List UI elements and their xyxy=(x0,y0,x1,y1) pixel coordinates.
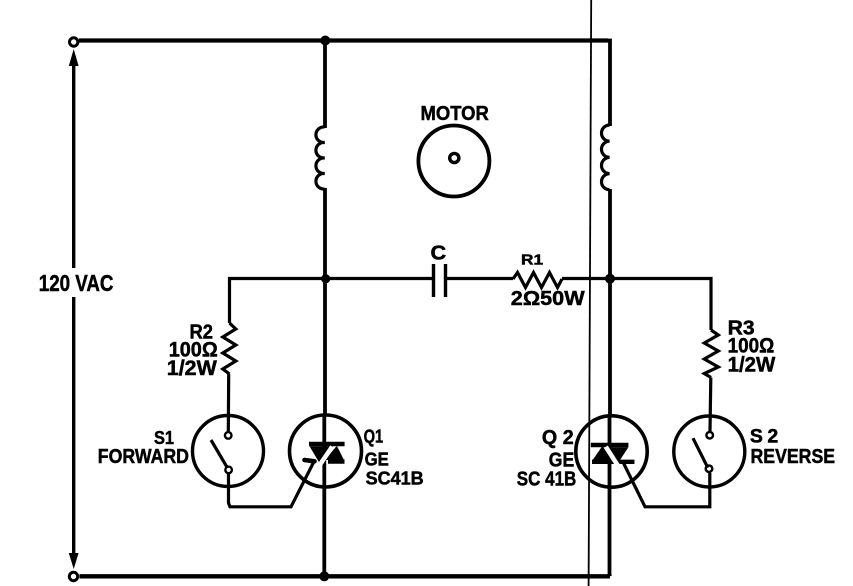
S2 top contact xyxy=(706,432,713,439)
svg-text:REVERSE: REVERSE xyxy=(751,446,836,468)
wire: right branch middle xyxy=(608,189,612,416)
wire: S1 to Q1 gate xyxy=(229,462,315,507)
wire: bottom bus xyxy=(80,574,611,578)
Q2 cathode bar xyxy=(592,460,635,464)
motor M xyxy=(418,126,489,197)
thyristor Q1 circle xyxy=(290,415,362,487)
Q2 triangle left (up) xyxy=(593,446,614,460)
junction: row / left branch xyxy=(321,274,330,283)
resistor R3 xyxy=(704,330,718,378)
capacitor C plate right xyxy=(444,264,447,297)
svg-text:C: C xyxy=(431,242,447,264)
Q1 cathode bar xyxy=(328,459,345,463)
S1 top contact xyxy=(225,432,232,439)
motor inner hub xyxy=(450,153,459,162)
S1 bottom contact xyxy=(225,467,232,474)
junction: top bus / left branch xyxy=(320,36,330,46)
svg-text:120 VAC: 120 VAC xyxy=(39,271,114,296)
svg-text:SC41B: SC41B xyxy=(366,468,424,488)
svg-text:1/2W: 1/2W xyxy=(728,353,776,376)
wire: source vertical lower xyxy=(72,297,75,556)
wire: top bus xyxy=(79,38,608,42)
svg-text:1/2W: 1/2W xyxy=(167,357,217,380)
svg-text:2Ω50W: 2Ω50W xyxy=(511,287,585,309)
wire: row right segment xyxy=(562,279,711,331)
wire: R3 to S2 xyxy=(708,378,712,432)
S2 bottom contact xyxy=(706,465,713,472)
svg-text:GE: GE xyxy=(365,449,389,470)
svg-text:Q1: Q1 xyxy=(364,426,384,447)
wire: left branch upper xyxy=(323,41,327,129)
junction: row / right branch xyxy=(605,274,615,284)
Q2 gate slash gap xyxy=(606,447,619,467)
Q1 gate slash gap xyxy=(318,447,332,468)
svg-text:S2: S2 xyxy=(750,425,783,447)
svg-text:SC 41B: SC 41B xyxy=(517,467,576,490)
wire: left branch middle xyxy=(323,188,327,416)
wire: left branch through Q1 to bottom xyxy=(322,416,326,576)
svg-text:FORWARD: FORWARD xyxy=(98,445,189,467)
wire: Q2 gate to S2 xyxy=(624,463,710,507)
svg-text:MOTOR: MOTOR xyxy=(421,102,489,125)
wire: row middle segment xyxy=(447,277,513,280)
terminal: 120 VAC bottom xyxy=(69,572,77,580)
wire: right branch through Q2 to bottom xyxy=(608,416,612,576)
Q1 triangle right (up) xyxy=(325,446,344,460)
svg-text:R1: R1 xyxy=(521,251,543,268)
Q1 gate stub xyxy=(305,460,315,461)
wire: right branch upper (corner from top bus) xyxy=(608,41,610,127)
terminal: 120 VAC top xyxy=(70,38,78,46)
resistor R2 xyxy=(223,323,236,374)
switch S2 circle xyxy=(674,416,745,487)
switch S1 circle xyxy=(193,416,264,487)
Q1 anode bar xyxy=(309,442,345,447)
wire: source vertical upper xyxy=(72,60,75,268)
vertical fold line xyxy=(589,0,592,586)
thyristor Q2 circle xyxy=(576,416,647,487)
junction: bottom bus / left branch xyxy=(319,571,329,581)
svg-text:Q 2: Q 2 xyxy=(542,427,574,449)
S2 arm xyxy=(693,438,708,468)
S1 arm xyxy=(211,440,227,467)
arrow up (source) xyxy=(69,49,79,66)
Q2 anode bar xyxy=(591,443,629,448)
arrow down (source) xyxy=(69,553,79,569)
inductor: right motor winding xyxy=(601,125,609,190)
Q1 triangle left (down) xyxy=(310,446,334,463)
resistor R1 xyxy=(513,273,562,288)
Q2 triangle right (down) xyxy=(606,447,628,463)
capacitor C plate left xyxy=(432,264,435,297)
wire: R2 to S1 xyxy=(227,374,231,432)
wire: row left segment xyxy=(230,279,433,324)
inductor: left motor winding xyxy=(316,127,325,189)
